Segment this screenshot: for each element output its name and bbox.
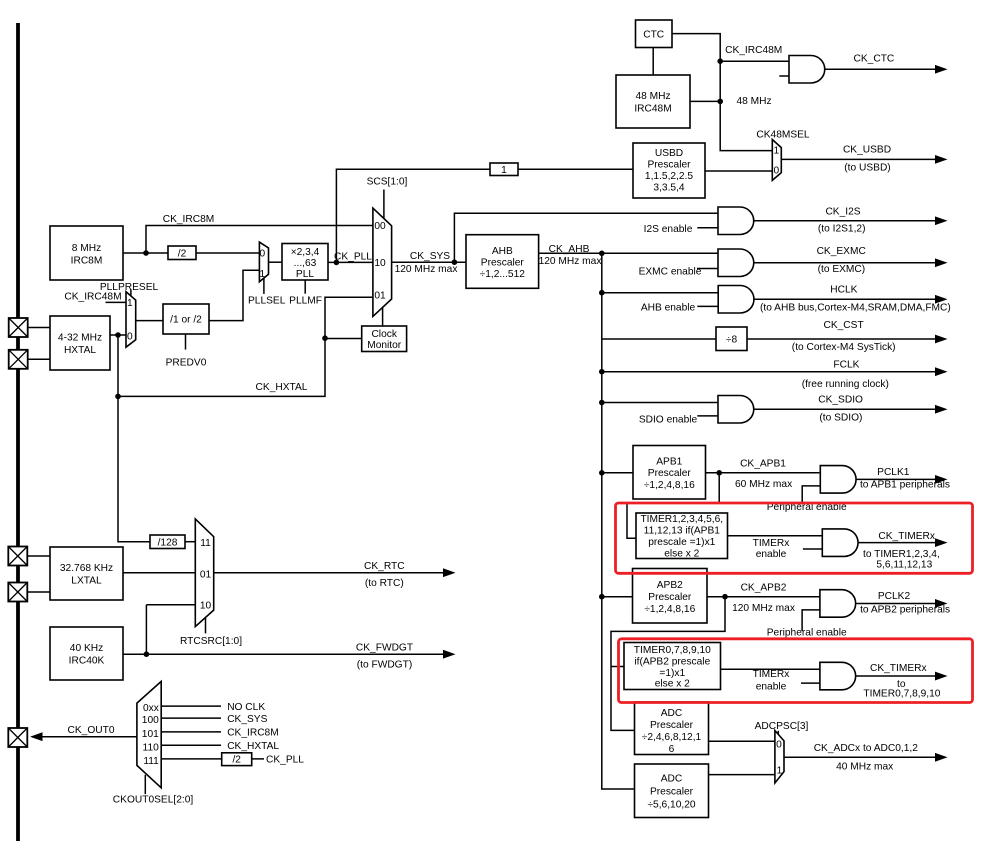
svg-text:LXTAL: LXTAL xyxy=(71,576,102,587)
arrow CK_CTC xyxy=(935,65,948,74)
pin crossed-box CK_OUT0 xyxy=(8,728,27,747)
svg-text:÷1,2...512: ÷1,2...512 xyxy=(480,269,526,280)
svg-text:÷1,2,4,8,16: ÷1,2,4,8,16 xyxy=(644,480,695,491)
wire CK_IRC8M (up and to SCS mux input 00) xyxy=(146,226,373,254)
svg-text:Prescaler: Prescaler xyxy=(648,592,692,603)
arrow CK_I2S xyxy=(935,216,948,225)
wire LXTAL output to RTC mux input 01 xyxy=(123,572,195,574)
svg-text:HXTAL: HXTAL xyxy=(64,345,96,356)
arrow CK_RTC xyxy=(443,568,456,577)
wire to Clock Monitor xyxy=(325,338,362,340)
svg-text:=1)x1: =1)x1 xyxy=(659,668,685,679)
ADC Prescaler box (from CK_AHB) xyxy=(635,764,709,818)
node CK_SYS branch xyxy=(452,259,458,265)
svg-text:(to FWDGT): (to FWDGT) xyxy=(357,659,412,670)
svg-text:Peripheral enable: Peripheral enable xyxy=(767,628,847,639)
wire ADCPSC select stub xyxy=(777,731,779,737)
mux SCS xyxy=(373,208,392,316)
svg-text:enable: enable xyxy=(756,549,787,560)
node HCLK branch xyxy=(599,290,605,296)
node APB2 branch xyxy=(599,594,605,600)
wire CK_SYS up to I2S gate xyxy=(454,213,718,262)
svg-text:Prescaler: Prescaler xyxy=(648,468,692,479)
svg-text:120 MHz max: 120 MHz max xyxy=(395,264,458,275)
svg-text:PCLK1: PCLK1 xyxy=(877,467,910,478)
svg-text:PREDV0: PREDV0 xyxy=(166,357,207,368)
oscillator LXTAL box xyxy=(50,547,123,600)
svg-text:CK_APB2: CK_APB2 xyxy=(741,583,787,594)
node CK_HXTAL branch xyxy=(115,394,121,400)
wire LXTAL pin connections xyxy=(28,556,50,592)
node CK_AHB tee xyxy=(599,251,605,257)
svg-text:÷2,4,6,8,12,1: ÷2,4,6,8,12,1 xyxy=(642,732,702,743)
svg-text:÷8: ÷8 xyxy=(726,334,738,345)
oscillator HXTAL box xyxy=(50,316,110,370)
wire CK_I2S output xyxy=(754,220,936,222)
svg-text:CK_PLL: CK_PLL xyxy=(266,754,304,765)
svg-text:Monitor: Monitor xyxy=(367,340,402,351)
wire CK_AHB branch to APB2 prescaler xyxy=(602,596,633,598)
wire /2 to PLLSEL input 0 xyxy=(196,252,259,254)
svg-text:1: 1 xyxy=(777,766,783,777)
svg-text:4-32 MHz: 4-32 MHz xyxy=(58,332,102,343)
svg-text:48 MHz: 48 MHz xyxy=(635,91,670,102)
wire HXTAL pin connections xyxy=(28,328,50,360)
TIMER1 multiplier box xyxy=(636,513,728,559)
svg-text:TIMER1,2,3,4,5,6,: TIMER1,2,3,4,5,6, xyxy=(640,514,723,525)
wire CK_IRC48M to PLLPRESEL input 1 xyxy=(106,301,127,303)
wire CK_TIMERx output 1 xyxy=(858,542,935,544)
wire HCLK output xyxy=(754,298,936,300)
wire RTCSRC select stub xyxy=(205,618,207,633)
divider /1 or /2 box xyxy=(163,304,209,334)
svg-text:if(APB2 prescale: if(APB2 prescale xyxy=(634,656,710,667)
wire CK_PLL to SCS mux input 10 xyxy=(328,261,373,263)
mux CK48MSEL xyxy=(772,140,781,181)
red highlight rect TIMER1 group xyxy=(616,503,973,573)
arrow HCLK xyxy=(935,295,948,304)
wire PCLK2 output xyxy=(856,602,936,604)
USBD Prescaler box xyxy=(633,143,705,198)
svg-text:CK_PLL: CK_PLL xyxy=(334,251,372,262)
wire PLLMF select stub xyxy=(304,280,306,294)
arrow CK_FWDGT xyxy=(443,650,456,659)
AHB Prescaler box xyxy=(466,235,539,289)
svg-text:CK_SYS: CK_SYS xyxy=(410,251,450,262)
wire /128 to RTC mux input 11 xyxy=(185,541,195,543)
wire CK_RTC output xyxy=(214,572,443,574)
svg-text:÷5,6,10,20: ÷5,6,10,20 xyxy=(647,800,695,811)
wire CK_AHB to EXMC gate xyxy=(539,252,718,254)
divider /2 box xyxy=(168,246,196,260)
svg-text:(to Cortex-M4 SysTick): (to Cortex-M4 SysTick) xyxy=(792,342,896,353)
svg-text:Prescaler: Prescaler xyxy=(650,787,694,798)
svg-text:10: 10 xyxy=(200,601,212,612)
svg-text:(to RTC): (to RTC) xyxy=(365,578,404,589)
wire SCS mux to Clock Monitor stub xyxy=(382,308,384,327)
svg-text:CK_APB1: CK_APB1 xyxy=(740,458,786,469)
wire I2S enable stub xyxy=(697,227,718,229)
svg-text:(to SDIO): (to SDIO) xyxy=(819,412,862,423)
svg-text:110: 110 xyxy=(143,742,160,753)
wire CK_APB2 to PCLK2 gate xyxy=(707,596,820,598)
pin crossed-box HXTAL in xyxy=(9,318,28,337)
svg-text:AHB: AHB xyxy=(492,246,513,257)
svg-text:PCLK2: PCLK2 xyxy=(878,591,911,602)
svg-text:11,12,13 if(APB1: 11,12,13 if(APB1 xyxy=(644,526,721,537)
svg-text:CK_TIMERx: CK_TIMERx xyxy=(878,531,935,542)
divider /8 box xyxy=(716,327,747,351)
and-gate HCLK xyxy=(718,286,754,314)
svg-text:CK_I2S: CK_I2S xyxy=(825,206,860,217)
svg-text:CK_ADCx to ADC0,1,2: CK_ADCx to ADC0,1,2 xyxy=(814,743,919,754)
arrow CK_USBD xyxy=(935,155,948,164)
node APB1 branch xyxy=(599,470,605,476)
svg-text:CK_CTC: CK_CTC xyxy=(854,54,895,65)
node 48MHz branch xyxy=(717,99,723,105)
svg-text:120 MHz max: 120 MHz max xyxy=(539,256,602,267)
svg-text:Prescaler: Prescaler xyxy=(647,160,691,171)
arrow CK_SDIO xyxy=(935,405,948,414)
wire CK_USBD output xyxy=(781,158,935,160)
arrow CK_ADCx xyxy=(935,753,948,762)
svg-text:(free running clock): (free running clock) xyxy=(802,379,889,390)
node clock monitor branch xyxy=(322,335,328,341)
wire CK_FWDGT output xyxy=(123,653,443,655)
mux CKOUT0SEL xyxy=(137,681,161,787)
wire IRC8M output to /2 xyxy=(123,252,168,254)
svg-text:IRC48M: IRC48M xyxy=(634,103,671,114)
svg-text:/2: /2 xyxy=(178,248,187,259)
svg-text:PLL: PLL xyxy=(296,269,314,280)
mux PLLSEL xyxy=(259,242,268,282)
svg-text:IRC40K: IRC40K xyxy=(69,656,105,667)
svg-text:48 MHz: 48 MHz xyxy=(736,96,771,107)
svg-text:TIMERx: TIMERx xyxy=(753,538,790,549)
node CK_PLL branch xyxy=(334,260,340,266)
svg-text:/128: /128 xyxy=(158,538,178,549)
svg-text:prescale =1)x1: prescale =1)x1 xyxy=(648,537,715,548)
svg-text:TIMER0,7,8,9,10: TIMER0,7,8,9,10 xyxy=(634,645,711,656)
svg-text:CK_TIMERx: CK_TIMERx xyxy=(870,663,927,674)
svg-text:CTC: CTC xyxy=(643,29,664,40)
APB1 Prescaler box xyxy=(633,446,706,500)
node SDIO branch xyxy=(599,400,605,406)
pin crossed-box HXTAL out xyxy=(9,350,28,369)
svg-text:CK48MSEL: CK48MSEL xyxy=(756,130,810,141)
svg-text:60 MHz max: 60 MHz max xyxy=(735,479,792,490)
wire CK_HXTAL to SCS mux input 01 xyxy=(118,297,373,396)
wire CK_SYS to AHB prescaler xyxy=(392,261,466,263)
svg-text:APB1: APB1 xyxy=(656,456,682,467)
svg-text:×2,3,4: ×2,3,4 xyxy=(291,247,320,258)
svg-text:/2: /2 xyxy=(232,755,241,766)
svg-text:CK_OUT0: CK_OUT0 xyxy=(68,725,115,736)
svg-text:CK_AHB: CK_AHB xyxy=(549,244,590,255)
svg-text:1: 1 xyxy=(773,146,779,157)
wire AHB enable stub xyxy=(697,305,718,307)
svg-text:01: 01 xyxy=(200,569,212,580)
wire TIMERx enable stub 2 xyxy=(801,682,820,684)
svg-text:SDIO enable: SDIO enable xyxy=(639,415,698,426)
svg-text:32.768 KHz: 32.768 KHz xyxy=(60,563,113,574)
svg-text:CK_CST: CK_CST xyxy=(823,320,863,331)
and-gate CK_SDIO xyxy=(718,396,754,424)
arrow FCLK xyxy=(935,367,948,376)
svg-text:(to EXMC): (to EXMC) xyxy=(818,264,866,275)
svg-text:CK_FWDGT: CK_FWDGT xyxy=(356,642,413,653)
wire TIMERx enable stub 1 xyxy=(803,548,822,550)
node CK_APB1 branch xyxy=(716,470,722,476)
svg-text:6: 6 xyxy=(669,744,675,755)
node CK_APB2 branch xyxy=(722,594,728,600)
wire CK_CST output xyxy=(747,338,936,340)
and-gate PCLK2 xyxy=(820,590,856,618)
svg-text:1: 1 xyxy=(127,298,133,309)
svg-text:÷1,2,4,8,16: ÷1,2,4,8,16 xyxy=(644,604,695,615)
wire FCLK xyxy=(602,371,936,373)
pin crossed-box LXTAL in xyxy=(8,547,27,566)
wire CTC to CK48MSEL input 1 xyxy=(672,34,772,151)
svg-text:PLLMF: PLLMF xyxy=(289,296,322,307)
node FCLK branch xyxy=(599,369,605,375)
svg-text:10: 10 xyxy=(374,258,386,269)
svg-text:TIMERx: TIMERx xyxy=(753,669,790,680)
wire SDIO enable stub xyxy=(697,415,718,417)
svg-text:else x 2: else x 2 xyxy=(664,549,699,560)
wire PCLK2 peripheral enable xyxy=(802,610,820,631)
svg-text:00: 00 xyxy=(374,221,386,232)
TIMER0 multiplier box xyxy=(624,643,721,690)
svg-text:1,1.5,2,2.5: 1,1.5,2,2.5 xyxy=(645,171,693,182)
APB2 Prescaler box xyxy=(633,569,708,624)
and-gate CK_TIMERx (APB1) xyxy=(822,529,858,557)
svg-text:SCS[1:0]: SCS[1:0] xyxy=(367,177,408,188)
svg-text:ADC: ADC xyxy=(661,774,683,785)
and-gate CK_EXMC xyxy=(718,249,754,277)
pin crossed-box LXTAL out xyxy=(8,583,27,602)
wire USBD prescaler to CK48MSEL input 0 xyxy=(705,170,772,172)
wire CKOUT0 mux inputs xyxy=(161,706,264,759)
multiplier 1 box xyxy=(490,163,518,176)
svg-text:CK_IRC48M: CK_IRC48M xyxy=(64,291,121,302)
svg-text:0: 0 xyxy=(127,332,133,343)
red highlight rect TIMER0 group xyxy=(619,639,973,703)
svg-text:else x 2: else x 2 xyxy=(655,678,690,689)
wire CK_OUT0 output xyxy=(42,736,137,738)
wire CK_EXMC output xyxy=(754,262,936,264)
wire IRC40K to RTC mux input 10 xyxy=(146,605,195,655)
wire /1 or /2 output to PLLSEL input 1 xyxy=(209,270,259,320)
svg-text:CK_IRC48M: CK_IRC48M xyxy=(725,45,782,56)
wire SCS select stub xyxy=(383,190,385,219)
svg-text:enable: enable xyxy=(756,682,787,693)
oscillator IRC8M box xyxy=(50,226,123,280)
wire CK_PLL up to 1 box and USBD prescaler xyxy=(336,169,633,262)
wire CK_AHB branch to SDIO gate xyxy=(602,402,718,404)
node IRC8M out xyxy=(143,250,149,256)
wire CK_AHB branch to divide-8 xyxy=(602,338,716,340)
svg-text:11: 11 xyxy=(200,538,211,549)
mux RTCSRC xyxy=(195,519,213,627)
wire PREDV0 stub xyxy=(185,334,187,350)
svg-text:NO CLK: NO CLK xyxy=(227,702,265,713)
arrow CK_TIMERx (APB2) xyxy=(935,672,948,681)
wire CK_HXTAL down to /128 xyxy=(118,335,150,542)
svg-text:CK_IRC8M: CK_IRC8M xyxy=(163,214,215,225)
svg-text:100: 100 xyxy=(142,715,159,726)
svg-text:(to I2S1,2): (to I2S1,2) xyxy=(818,224,866,235)
wire ADC prescaler1 to ADCPSC mux input 0 xyxy=(709,740,775,742)
svg-text:IRC8M: IRC8M xyxy=(71,255,103,266)
svg-text:CK_USBD: CK_USBD xyxy=(843,145,891,156)
svg-text:CK_IRC8M: CK_IRC8M xyxy=(227,728,279,739)
arrow CK_TIMERx (APB1) xyxy=(935,538,948,547)
svg-text:1: 1 xyxy=(501,165,507,176)
svg-text:1: 1 xyxy=(259,269,265,280)
node HXTAL out xyxy=(115,332,121,338)
PLL box xyxy=(282,244,328,281)
and-gate CK_TIMERx (APB2) xyxy=(820,662,856,690)
svg-text:AHB enable: AHB enable xyxy=(641,303,696,314)
svg-text:40 MHz max: 40 MHz max xyxy=(836,762,893,773)
wire PLLPRESEL select stub xyxy=(130,289,132,296)
arrow CK_EXMC xyxy=(935,258,948,267)
svg-text:101: 101 xyxy=(142,729,159,740)
node CK_IRC48M branch xyxy=(717,58,723,64)
wire CTC to IRC48M xyxy=(652,48,654,76)
svg-text:Prescaler: Prescaler xyxy=(481,257,525,268)
wire CK_IRC48M to CTC gate xyxy=(720,60,789,62)
wire PLLSEL output to PLL xyxy=(269,261,283,263)
mux ADCPSC xyxy=(775,731,784,784)
wire CK_APB2 down to TIMER0 multiplier and ADC prescaler xyxy=(611,597,725,731)
svg-text:8 MHz: 8 MHz xyxy=(72,243,101,254)
ADC Prescaler box (from CK_APB2) xyxy=(635,702,709,755)
svg-text:to TIMER1,2,3,4,: to TIMER1,2,3,4, xyxy=(863,549,940,560)
svg-text:(to AHB bus,Cortex-M4,SRAM,DMA: (to AHB bus,Cortex-M4,SRAM,DMA,FMC) xyxy=(760,302,951,313)
wire IRC48M output xyxy=(690,100,720,102)
svg-text:RTCSRC[1:0]: RTCSRC[1:0] xyxy=(180,636,242,647)
wire TIMER1 multiplier to TIMERx gate xyxy=(728,535,823,537)
wire CKOUT0SEL select stub xyxy=(144,775,146,794)
wire HXTAL output to PLLPRESEL input 0 xyxy=(110,334,126,336)
svg-text:APB2: APB2 xyxy=(657,580,683,591)
svg-text:Clock: Clock xyxy=(371,329,397,340)
and-gate CK_CTC xyxy=(789,56,825,84)
svg-text:3,3.5,4: 3,3.5,4 xyxy=(653,183,684,194)
svg-text:CK_HXTAL: CK_HXTAL xyxy=(227,741,279,752)
svg-text:CK_SDIO: CK_SDIO xyxy=(818,395,863,406)
svg-text:USBD: USBD xyxy=(655,148,683,159)
svg-text:(to USBD): (to USBD) xyxy=(844,162,890,173)
svg-text:TIMER0,7,8,9,10: TIMER0,7,8,9,10 xyxy=(863,689,940,700)
mux PLLPRESEL xyxy=(126,292,136,348)
power bus (left vertical rail) xyxy=(16,23,20,841)
svg-text:40 KHz: 40 KHz xyxy=(70,643,103,654)
svg-text:EXMC enable: EXMC enable xyxy=(639,267,702,278)
svg-text:CK_SYS: CK_SYS xyxy=(227,714,267,725)
wire PLLSEL select stub xyxy=(263,278,265,294)
arrow PCLK2 xyxy=(935,599,948,608)
node IRC40K out xyxy=(144,651,150,657)
svg-text:120 MHz max: 120 MHz max xyxy=(732,603,795,614)
wire CK_APB1 to PCLK1 gate xyxy=(706,472,820,474)
arrow CK_CST xyxy=(935,335,948,344)
divider /128 box xyxy=(150,535,185,549)
wire CK_ADCx output xyxy=(784,756,936,758)
svg-text:CK_EXMC: CK_EXMC xyxy=(817,246,866,257)
svg-text:I2S enable: I2S enable xyxy=(644,224,693,235)
divider /2 box (CK_PLL out) xyxy=(222,753,252,766)
svg-text:0xx: 0xx xyxy=(143,703,159,714)
and-gate CK_I2S xyxy=(718,207,754,235)
svg-text:CK_RTC: CK_RTC xyxy=(364,561,405,572)
wire ADC prescaler2 to ADCPSC mux input 1 xyxy=(709,774,775,776)
svg-text:01: 01 xyxy=(374,290,386,301)
svg-text:ADC: ADC xyxy=(661,708,683,719)
svg-text:...,63: ...,63 xyxy=(294,258,317,269)
wire PCLK1 output xyxy=(856,478,936,480)
arrow PCLK1 xyxy=(935,475,948,484)
wire CK_TIMERx output 2 xyxy=(856,675,936,677)
svg-text:0: 0 xyxy=(259,248,265,259)
svg-text:Prescaler: Prescaler xyxy=(650,720,694,731)
svg-text:0: 0 xyxy=(776,740,782,751)
svg-text:PLLSEL: PLLSEL xyxy=(248,296,286,307)
wire CK_AHB branch to HCLK gate xyxy=(602,292,718,294)
svg-text:0: 0 xyxy=(773,165,779,176)
and-gate PCLK1 xyxy=(820,466,856,494)
wire CK_AHB main vertical to ADC prescaler2 xyxy=(602,253,635,789)
svg-text:/1 or /2: /1 or /2 xyxy=(170,315,202,326)
wire TIMER0 multiplier to TIMERx gate xyxy=(721,668,820,670)
wire EXMC enable stub xyxy=(697,268,718,270)
wire PLLPRESEL output to /1 or /2 xyxy=(136,320,163,322)
wire CTC gate enable stub xyxy=(779,75,789,77)
wire CK_SDIO output xyxy=(754,408,936,410)
CTC box xyxy=(636,20,673,48)
svg-text:HCLK: HCLK xyxy=(830,285,857,296)
svg-text:to APB1 peripherals: to APB1 peripherals xyxy=(860,480,950,491)
Clock Monitor box xyxy=(362,326,407,352)
svg-text:FCLK: FCLK xyxy=(833,359,859,370)
svg-text:5,6,11,12,13: 5,6,11,12,13 xyxy=(876,560,932,571)
svg-text:111: 111 xyxy=(143,756,159,767)
arrow CK_OUT0 (left) xyxy=(30,732,43,741)
arrowheads xyxy=(30,65,948,762)
wire PCLK1 peripheral enable xyxy=(802,486,820,504)
svg-text:ADCPSC[3]: ADCPSC[3] xyxy=(755,721,809,732)
oscillator IRC40K box xyxy=(50,627,123,680)
svg-text:CK_HXTAL: CK_HXTAL xyxy=(256,382,308,393)
oscillator IRC48M box xyxy=(616,75,690,128)
wire CK_AHB branch to APB1 prescaler xyxy=(602,472,633,474)
wire CK_APB1 down to TIMER1 multiplier xyxy=(627,473,719,539)
wire CK_CTC output xyxy=(825,68,936,70)
svg-text:CKOUT0SEL[2:0]: CKOUT0SEL[2:0] xyxy=(113,794,194,805)
svg-text:to APB2 peripherals: to APB2 peripherals xyxy=(860,604,950,615)
